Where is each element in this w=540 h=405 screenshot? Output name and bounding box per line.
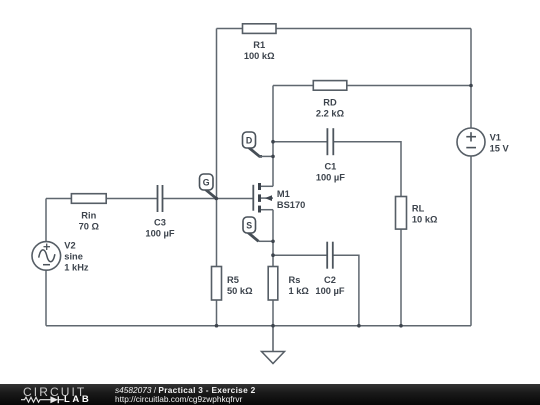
svg-text:15 V: 15 V — [490, 143, 510, 153]
wire C2 right down — [333, 255, 359, 326]
wire source vertical — [272, 210, 274, 326]
svg-text:RL: RL — [412, 204, 425, 214]
wire drain lead — [260, 185, 274, 187]
svg-text:100 µF: 100 µF — [315, 286, 344, 296]
resistor Rin — [71, 194, 106, 204]
svg-text:100 µF: 100 µF — [145, 229, 174, 239]
svg-text:S: S — [246, 221, 252, 231]
resistor R5 — [212, 267, 222, 301]
source V2 (sine) — [32, 242, 61, 271]
wire RL bottom — [400, 229, 402, 326]
circuitlab logo — [0, 384, 110, 405]
ground — [262, 326, 285, 364]
wire V2 top — [45, 199, 47, 242]
wire bottom rail — [46, 325, 471, 327]
svg-text:C1: C1 — [324, 162, 336, 172]
transistor M1 (BS170 NMOS) — [253, 183, 273, 213]
svg-text:2.2 kΩ: 2.2 kΩ — [316, 109, 345, 119]
footer bar — [0, 384, 540, 405]
svg-text:50 kΩ: 50 kΩ — [227, 286, 253, 296]
svg-text:M1: M1 — [277, 189, 290, 199]
wire top rail — [217, 28, 472, 30]
wire C1 left — [273, 141, 327, 143]
wire V2 bottom — [45, 270, 47, 326]
resistor RD — [313, 81, 347, 91]
resistor Rs — [268, 267, 278, 301]
node flag S — [243, 217, 273, 241]
wire C1 right to RL top — [333, 142, 401, 197]
svg-text:C2: C2 — [324, 275, 336, 285]
wire RD row — [273, 85, 471, 87]
svg-text:Rin: Rin — [81, 211, 96, 221]
node flag G — [200, 174, 217, 198]
transistor M1 body arrow — [265, 195, 272, 201]
resistor RL — [396, 197, 407, 230]
svg-text:RD: RD — [323, 98, 337, 108]
wire left vertical (R1 left / gate / R5) — [216, 29, 218, 326]
svg-text:sine: sine — [64, 251, 83, 261]
svg-text:D: D — [246, 136, 252, 146]
svg-text:70 Ω: 70 Ω — [79, 222, 100, 232]
wire C3 right to gate — [163, 198, 254, 200]
svg-text:100 kΩ: 100 kΩ — [244, 51, 275, 61]
svg-text:1 kΩ: 1 kΩ — [289, 286, 310, 296]
svg-text:BS170: BS170 — [277, 200, 305, 210]
capacitor C2 — [327, 242, 333, 269]
svg-text:R5: R5 — [227, 275, 239, 285]
wire source lead — [260, 209, 274, 211]
svg-text:R1: R1 — [253, 40, 265, 50]
node flag D — [243, 132, 274, 156]
node junction dots — [215, 84, 473, 328]
svg-text:V1: V1 — [490, 133, 501, 143]
wire input row (V2 to C3 left plate) — [46, 198, 158, 200]
wire drain vertical — [272, 86, 274, 187]
svg-text:C3: C3 — [154, 218, 166, 228]
svg-text:100 µF: 100 µF — [316, 173, 345, 183]
svg-text:V2: V2 — [64, 240, 75, 250]
wire V1 bottom — [470, 156, 472, 326]
resistor R1 — [243, 24, 277, 34]
svg-text:LAB: LAB — [64, 394, 91, 405]
svg-text:1 kHz: 1 kHz — [64, 263, 89, 273]
svg-text:G: G — [203, 178, 210, 188]
wire C2 left — [273, 254, 327, 256]
capacitor C3 — [158, 185, 163, 212]
svg-text:10 kΩ: 10 kΩ — [412, 215, 438, 225]
svg-text:Rs: Rs — [289, 275, 301, 285]
source V1 — [457, 128, 485, 156]
wire V1 top — [470, 29, 472, 129]
capacitor C1 — [327, 128, 333, 155]
